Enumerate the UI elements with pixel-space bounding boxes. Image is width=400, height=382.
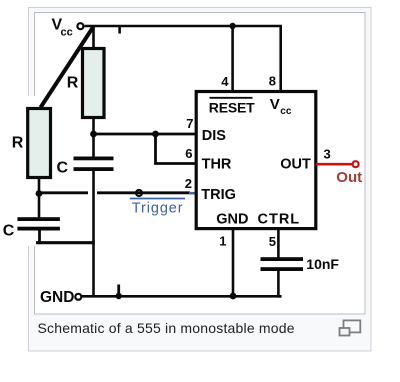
terminal Vcc bbox=[77, 23, 83, 29]
wire node A to DIS pin 7 bbox=[94, 133, 198, 136]
svg-text:V: V bbox=[270, 96, 280, 113]
thumbnail frame (decorative) bbox=[29, 8, 372, 352]
wire ground rail bbox=[82, 295, 282, 298]
wire stub on top rail bbox=[118, 26, 121, 34]
wire pin 1 to ground rail bbox=[232, 229, 235, 297]
node Trigger label bbox=[130, 199, 185, 217]
junction pin 1 on ground rail bbox=[230, 293, 237, 300]
terminal GND bbox=[75, 294, 81, 300]
svg-text:cc: cc bbox=[61, 27, 73, 39]
wire trigger blue tip at pin 2 bbox=[189, 192, 198, 195]
svg-text:THR: THR bbox=[202, 156, 232, 172]
terminal trigger input bbox=[136, 190, 142, 196]
capacitor C1 bbox=[57, 157, 114, 177]
magnify icon bbox=[340, 320, 361, 335]
svg-text:4: 4 bbox=[221, 74, 229, 89]
wire C2 bottom to C1 branch bbox=[38, 230, 41, 244]
svg-text:DIS: DIS bbox=[202, 128, 227, 144]
capacitor C2 bbox=[3, 217, 60, 239]
IC U1 555 bbox=[196, 92, 316, 229]
svg-text:TRIG: TRIG bbox=[201, 187, 236, 203]
wire horizontal C2 to ground branch bbox=[36, 241, 95, 244]
wire node A to C1 bbox=[92, 134, 95, 157]
svg-text:GND: GND bbox=[40, 289, 74, 306]
wire C1 bottom to ground rail bbox=[92, 171, 95, 296]
svg-text:3: 3 bbox=[324, 146, 331, 161]
wire pin 5 to C3 bbox=[277, 229, 280, 258]
wire R1 bottom bbox=[92, 118, 95, 136]
svg-text:RESET: RESET bbox=[209, 99, 255, 115]
resistor R1 bbox=[67, 49, 104, 118]
svg-text:R: R bbox=[12, 134, 24, 151]
wire trigger right segment to pin 2 bbox=[97, 191, 190, 194]
wire to pin 4 bbox=[231, 26, 234, 92]
junction THR branch bbox=[152, 131, 159, 138]
capacitor C3 10nF bbox=[261, 256, 340, 272]
svg-text:cc: cc bbox=[280, 106, 292, 117]
svg-text:Schematic of a 555 in monostab: Schematic of a 555 in monostable mode bbox=[38, 320, 295, 336]
wire Vcc rail to R1 bbox=[92, 26, 95, 49]
svg-text:C: C bbox=[57, 159, 69, 176]
wire trigger left segment bbox=[39, 191, 88, 194]
wire stub on ground rail bbox=[117, 285, 120, 297]
svg-text:R: R bbox=[67, 75, 79, 92]
svg-text:7: 7 bbox=[186, 116, 193, 131]
junction trigger node bbox=[36, 190, 43, 197]
svg-text:CTRL: CTRL bbox=[258, 212, 301, 228]
svg-text:Out: Out bbox=[336, 169, 362, 186]
node Vcc label bbox=[52, 17, 73, 39]
wire C3 bottom to ground rail bbox=[278, 271, 281, 297]
svg-text:OUT: OUT bbox=[280, 157, 311, 173]
svg-text:GND: GND bbox=[216, 212, 248, 228]
svg-text:6: 6 bbox=[185, 146, 192, 161]
wire Vcc top rail to pin 8 bbox=[85, 26, 281, 92]
svg-text:5: 5 bbox=[269, 234, 276, 249]
svg-text:C: C bbox=[3, 222, 15, 239]
svg-text:10nF: 10nF bbox=[306, 256, 339, 272]
svg-text:Trigger: Trigger bbox=[132, 201, 184, 217]
resistor R2 bbox=[12, 109, 51, 178]
svg-text:1: 1 bbox=[219, 234, 226, 249]
wire THR branch to pin 6 bbox=[156, 134, 198, 164]
svg-text:2: 2 bbox=[185, 176, 192, 191]
wire R2 bottom bbox=[38, 178, 41, 196]
wire OUT pin 3 bbox=[316, 163, 353, 166]
terminal Out bbox=[353, 161, 359, 167]
junction on top rail bbox=[229, 23, 235, 29]
junction ground stub bbox=[116, 293, 122, 299]
wire R2/trigger node to C2 bbox=[38, 194, 41, 218]
wire diagonal Vcc to R2 bbox=[41, 27, 94, 108]
svg-text:8: 8 bbox=[269, 74, 276, 89]
junction node A bbox=[90, 131, 97, 138]
